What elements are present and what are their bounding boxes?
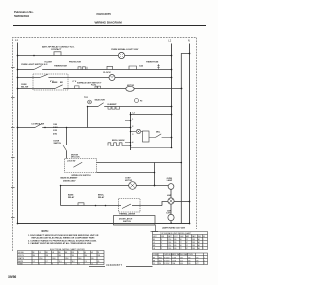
svg-text:316: 316 bbox=[188, 263, 191, 265]
svg-text:4 BU: 4 BU bbox=[53, 132, 58, 135]
svg-text:4: 4 bbox=[132, 141, 134, 144]
svg-text:077: 077 bbox=[196, 263, 199, 265]
svg-text:INTERLOCK SWITCH: INTERLOCK SWITCH bbox=[72, 175, 92, 177]
svg-text:REF: REF bbox=[198, 236, 201, 238]
svg-text:2 WH: 2 WH bbox=[53, 127, 58, 129]
svg-text:8": 8" bbox=[161, 242, 163, 244]
svg-text:3400: 3400 bbox=[159, 260, 163, 262]
svg-text:SWITCH: SWITCH bbox=[123, 221, 131, 223]
svg-text:VOLTS: VOLTS bbox=[18, 255, 24, 257]
svg-text:208: 208 bbox=[46, 255, 49, 257]
svg-text:N: N bbox=[188, 39, 190, 43]
svg-text:BK: BK bbox=[153, 257, 155, 259]
svg-text:12A: 12A bbox=[139, 64, 143, 67]
svg-text:A1: A1 bbox=[198, 238, 200, 241]
svg-text:5995394594: 5995394594 bbox=[14, 14, 29, 18]
svg-text:W: W bbox=[98, 252, 100, 254]
svg-text:5.2: 5.2 bbox=[186, 239, 188, 241]
svg-text:27: 27 bbox=[180, 242, 182, 244]
svg-text:240: 240 bbox=[174, 239, 177, 241]
svg-text:LO BROIL SW: LO BROIL SW bbox=[32, 124, 45, 126]
svg-text:48.5: 48.5 bbox=[180, 257, 183, 259]
svg-text:TOP SURFACE UNIT RATING CHART: TOP SURFACE UNIT RATING CHART bbox=[160, 232, 192, 235]
svg-text:076: 076 bbox=[196, 260, 199, 262]
svg-text:PROTECTOR: PROTECTOR bbox=[69, 61, 81, 63]
svg-text:SIZE: SIZE bbox=[161, 236, 164, 238]
svg-text:SEL SW: SEL SW bbox=[21, 86, 28, 88]
svg-text:WATTS: WATTS bbox=[18, 257, 25, 260]
svg-text:316080877: 316080877 bbox=[106, 263, 122, 267]
svg-text:MODEL: MODEL bbox=[18, 252, 24, 254]
svg-text:ELECTRICAL RATING CHART 240/20: ELECTRICAL RATING CHART 240/208V bbox=[50, 248, 85, 251]
svg-text:FGFC3075: FGFC3075 bbox=[97, 12, 112, 16]
svg-text:RF: RF bbox=[33, 252, 35, 254]
svg-text:BROIL 3400W: BROIL 3400W bbox=[112, 139, 125, 142]
svg-text:SWITCH: SWITCH bbox=[54, 143, 62, 145]
svg-text:LAMPS RATED 120V 25W: LAMPS RATED 120V 25W bbox=[162, 226, 185, 229]
svg-text:5.2: 5.2 bbox=[33, 261, 35, 263]
svg-text:1250: 1250 bbox=[168, 239, 171, 241]
svg-text:2: 2 bbox=[203, 248, 204, 250]
svg-text:2100: 2100 bbox=[52, 258, 56, 260]
svg-text:350: 350 bbox=[159, 263, 162, 265]
svg-text:1250: 1250 bbox=[168, 245, 171, 247]
svg-text:LOCK SW: LOCK SW bbox=[67, 161, 76, 163]
svg-text:HZ: HZ bbox=[91, 252, 93, 254]
svg-text:NOTE:: NOTE: bbox=[42, 231, 49, 233]
svg-text:1250: 1250 bbox=[39, 258, 43, 260]
svg-text:10: 10 bbox=[65, 264, 67, 266]
svg-text:CONTACT: CONTACT bbox=[51, 48, 62, 51]
svg-text:RELAY: RELAY bbox=[68, 196, 75, 199]
svg-text:6": 6" bbox=[161, 245, 163, 247]
svg-text:1 BK: 1 BK bbox=[53, 124, 58, 126]
svg-text:VOLT: VOLT bbox=[174, 236, 178, 238]
svg-text:LAMP: LAMP bbox=[167, 179, 173, 182]
svg-text:240: 240 bbox=[174, 242, 177, 244]
svg-text:OVEN ELEMENT RATING CHART 240V: OVEN ELEMENT RATING CHART 240V bbox=[164, 253, 194, 256]
svg-text:5302: 5302 bbox=[192, 242, 195, 244]
svg-text:240: 240 bbox=[59, 255, 62, 257]
svg-text:8.7: 8.7 bbox=[186, 248, 188, 250]
svg-text:SURFACE UNIT SWITCH 8": SURFACE UNIT SWITCH 8" bbox=[77, 81, 102, 84]
svg-text:2850W 240V: 2850W 240V bbox=[63, 179, 76, 182]
svg-text:350: 350 bbox=[91, 258, 94, 260]
svg-text:5301: 5301 bbox=[192, 245, 195, 247]
svg-text:2. CONNECT RANGE TO PROPER ELE: 2. CONNECT RANGE TO PROPER ELECTRICAL SO… bbox=[28, 239, 97, 242]
svg-text:NO: NO bbox=[203, 236, 206, 238]
svg-text:OVEN SIGNAL LIGHT 120V: OVEN SIGNAL LIGHT 120V bbox=[111, 48, 139, 51]
svg-text:2: 2 bbox=[132, 126, 133, 128]
svg-text:27: 27 bbox=[180, 248, 182, 250]
svg-text:2100: 2100 bbox=[168, 242, 171, 244]
svg-text:8.7: 8.7 bbox=[186, 242, 188, 244]
svg-text:8.7: 8.7 bbox=[46, 261, 48, 263]
svg-text:40W: 40W bbox=[167, 194, 171, 197]
svg-text:A3: A3 bbox=[198, 244, 200, 247]
svg-text:2.9: 2.9 bbox=[85, 261, 87, 263]
svg-text:P2: P2 bbox=[140, 100, 142, 102]
svg-text:AMP: AMP bbox=[186, 235, 189, 238]
svg-text:W 240V: W 240V bbox=[164, 260, 169, 262]
svg-text:HI-LIMIT: HI-LIMIT bbox=[45, 61, 53, 63]
svg-text:240: 240 bbox=[85, 255, 88, 257]
svg-text:ELEMENT: ELEMENT bbox=[108, 104, 118, 106]
svg-text:MOTOR: MOTOR bbox=[125, 180, 133, 182]
svg-text:316: 316 bbox=[188, 260, 191, 262]
svg-text:MDL: MDL bbox=[156, 132, 161, 134]
svg-text:3: 3 bbox=[132, 134, 133, 136]
svg-text:2.9A: 2.9A bbox=[172, 262, 175, 265]
svg-text:CV: CV bbox=[153, 263, 155, 265]
svg-text:208: 208 bbox=[98, 255, 101, 257]
svg-text:BAKE ELEMENT: BAKE ELEMENT bbox=[61, 177, 79, 180]
svg-text:240: 240 bbox=[33, 255, 36, 257]
svg-text:WIRING DIAGRAM: WIRING DIAGRAM bbox=[95, 21, 123, 25]
svg-text:WATT: WATT bbox=[168, 235, 172, 238]
svg-text:8": 8" bbox=[161, 248, 163, 250]
svg-text:RR: RR bbox=[153, 245, 156, 247]
svg-text:DR LOCK: DR LOCK bbox=[71, 157, 80, 159]
svg-text:L2: L2 bbox=[133, 113, 135, 115]
svg-text:UNIT: UNIT bbox=[153, 236, 157, 238]
svg-text:5302: 5302 bbox=[192, 248, 195, 250]
svg-text:40: 40 bbox=[98, 261, 100, 263]
svg-text:2850: 2850 bbox=[65, 258, 69, 260]
svg-text:A: A bbox=[85, 251, 86, 254]
svg-text:L1: L1 bbox=[15, 38, 18, 42]
svg-text:3400: 3400 bbox=[78, 258, 82, 260]
svg-text:1: 1 bbox=[203, 245, 204, 247]
svg-text:14.2: 14.2 bbox=[72, 261, 75, 263]
svg-text:6: 6 bbox=[39, 264, 40, 266]
svg-text:BK: BK bbox=[59, 252, 61, 254]
svg-text:1. DISCONNECT SERVICE AT FUSE: 1. DISCONNECT SERVICE AT FUSE BOX BEFORE… bbox=[28, 234, 99, 237]
svg-text:3: 3 bbox=[204, 263, 205, 265]
svg-text:DOOR LATCH: DOOR LATCH bbox=[119, 217, 133, 220]
svg-text:KW: KW bbox=[72, 252, 75, 254]
svg-text:6": 6" bbox=[161, 239, 163, 241]
svg-text:39/56: 39/56 bbox=[8, 275, 16, 279]
svg-text:LR: LR bbox=[52, 252, 55, 254]
svg-text:BR: BR bbox=[65, 252, 68, 254]
svg-text:2100: 2100 bbox=[168, 248, 171, 250]
svg-text:THERMAL LIMITER: THERMAL LIMITER bbox=[119, 212, 136, 215]
svg-text:LR: LR bbox=[153, 248, 156, 250]
svg-text:5.2: 5.2 bbox=[186, 245, 188, 247]
svg-text:120: 120 bbox=[72, 255, 75, 257]
svg-text:3. CABINET MUST BE GROUNDED AT: 3. CABINET MUST BE GROUNDED AT ALL TIMES… bbox=[28, 242, 92, 245]
svg-text:BR: BR bbox=[60, 82, 63, 84]
svg-text:ANTI-TIP RELAY CONTACT N.O.: ANTI-TIP RELAY CONTACT N.O. bbox=[42, 45, 75, 48]
svg-text:THERMOSTAT: THERMOSTAT bbox=[54, 64, 68, 67]
svg-text:8: 8 bbox=[52, 264, 53, 266]
svg-text:RELAY: RELAY bbox=[98, 196, 105, 199]
svg-text:46: 46 bbox=[180, 239, 182, 241]
svg-text:120V: 120V bbox=[166, 213, 171, 215]
svg-text:A4: A4 bbox=[198, 247, 200, 250]
svg-text:REPLACING ANY ELECTRICAL WIRIN: REPLACING ANY ELECTRICAL WIRING OR COMPO… bbox=[32, 237, 96, 240]
svg-text:W 240V: W 240V bbox=[164, 257, 169, 259]
svg-text:W 120V: W 120V bbox=[164, 263, 169, 265]
svg-text:1: 1 bbox=[203, 239, 204, 241]
svg-text:SELECTOR: SELECTOR bbox=[95, 99, 106, 101]
svg-text:240: 240 bbox=[174, 245, 177, 247]
svg-text:46: 46 bbox=[180, 245, 182, 247]
svg-text:L2: L2 bbox=[168, 39, 171, 43]
svg-text:11.9: 11.9 bbox=[59, 261, 62, 263]
svg-text:12: 12 bbox=[78, 264, 80, 266]
svg-text:14.2A: 14.2A bbox=[172, 259, 176, 262]
svg-text:A2: A2 bbox=[198, 241, 200, 244]
svg-text:Publication No.: Publication No. bbox=[14, 10, 34, 14]
svg-text:1: 1 bbox=[132, 119, 133, 121]
svg-text:075: 075 bbox=[196, 257, 199, 259]
svg-text:49.4: 49.4 bbox=[180, 263, 183, 265]
svg-text:3 RD: 3 RD bbox=[53, 130, 58, 132]
svg-text:OVEN LIGHT SWITCH N.C.: OVEN LIGHT SWITCH N.C. bbox=[21, 64, 48, 66]
svg-text:V: V bbox=[78, 252, 79, 254]
svg-text:RF: RF bbox=[153, 239, 155, 241]
svg-text:RR: RR bbox=[46, 252, 49, 254]
svg-text:TCO: TCO bbox=[84, 97, 89, 99]
svg-text:316: 316 bbox=[188, 257, 191, 259]
svg-text:240: 240 bbox=[174, 248, 177, 250]
svg-text:OHM: OHM bbox=[180, 236, 184, 238]
svg-text:THERM FUSE: THERM FUSE bbox=[146, 62, 159, 64]
svg-text:PART: PART bbox=[192, 235, 196, 238]
svg-text:2: 2 bbox=[203, 242, 204, 244]
svg-text:5301: 5301 bbox=[192, 239, 195, 241]
svg-text:PLUG: PLUG bbox=[91, 84, 97, 86]
svg-text:40.6: 40.6 bbox=[180, 260, 183, 262]
svg-text:LF: LF bbox=[153, 242, 155, 244]
svg-text:14: 14 bbox=[91, 264, 93, 266]
svg-text:LF: LF bbox=[39, 252, 41, 254]
svg-text:CODE: CODE bbox=[153, 254, 158, 256]
svg-text:11.9A: 11.9A bbox=[172, 256, 176, 259]
svg-text:MOTOR: MOTOR bbox=[127, 85, 135, 87]
svg-text:2850: 2850 bbox=[159, 257, 163, 259]
svg-text:CLOCK: CLOCK bbox=[103, 72, 111, 74]
